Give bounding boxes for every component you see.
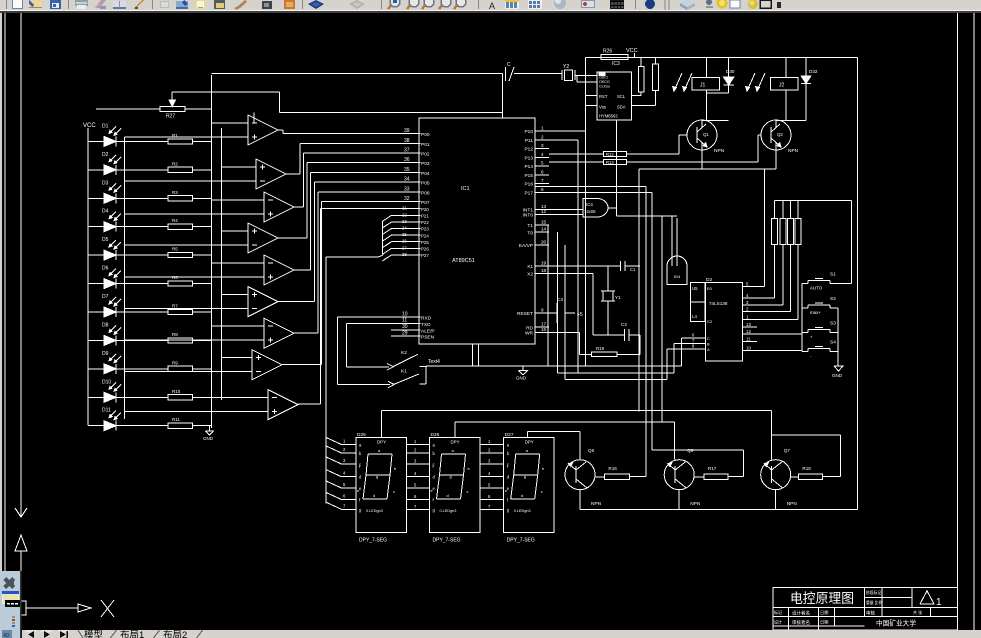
MCU pin P13 stub	[524, 152, 549, 162]
svg-text:33: 33	[404, 186, 410, 192]
svg-text:Q5: Q5	[588, 448, 595, 453]
wire op-amp U9 output to P20	[298, 209, 321, 405]
svg-text:R17: R17	[708, 466, 717, 471]
photodiode D7	[88, 294, 121, 317]
wire D9 to R9	[116, 368, 168, 370]
svg-text:T1: T1	[527, 223, 533, 229]
svg-text:P12: P12	[524, 147, 533, 153]
svg-text:Q6: Q6	[687, 448, 694, 453]
op-amp U4	[248, 223, 278, 253]
resistor R8	[168, 332, 192, 343]
svg-text:SCL: SCL	[617, 94, 626, 99]
svg-text:20: 20	[541, 240, 547, 245]
MCU pin INT1 stub	[523, 204, 549, 214]
svg-text:24: 24	[402, 226, 407, 231]
display common D26 wire to Q6	[455, 422, 675, 460]
svg-text:A: A	[489, 1, 495, 11]
svg-text:OSCI: OSCI	[599, 76, 608, 80]
svg-text:D26: D26	[431, 432, 440, 438]
resistor R7	[168, 304, 192, 315]
right cluster verticals	[548, 140, 578, 380]
svg-text:D2: D2	[706, 277, 712, 283]
svg-text:P13: P13	[524, 156, 533, 162]
svg-text:D9: D9	[102, 351, 109, 357]
svg-text:TXD: TXD	[421, 322, 431, 328]
svg-text:Y1: Y1	[615, 295, 621, 300]
svg-text:DPY_7-SEG: DPY_7-SEG	[433, 538, 461, 544]
svg-text:RESET: RESET	[517, 311, 533, 317]
resistor R26	[601, 49, 628, 60]
switch left rail	[801, 284, 803, 352]
svg-text:0.LEDgn3: 0.LEDgn3	[366, 509, 383, 513]
svg-text:HYM8563: HYM8563	[599, 114, 618, 119]
panel icon layout sheet	[2, 591, 19, 604]
svg-text:C2: C2	[621, 322, 627, 327]
svg-text:+: +	[810, 335, 813, 340]
svg-text:27: 27	[402, 245, 407, 250]
VCC left rail wire	[87, 128, 89, 426]
svg-text:16: 16	[541, 327, 547, 332]
sheet frame outer left border	[4, 13, 6, 571]
svg-text:IC1: IC1	[461, 186, 470, 192]
switch S2	[802, 296, 838, 315]
MCU pin P03 wire	[307, 157, 430, 167]
svg-text:11: 11	[402, 318, 407, 324]
svg-text:R12: R12	[606, 152, 614, 157]
photodiode D1	[88, 123, 121, 146]
svg-text:18: 18	[541, 268, 547, 273]
MCU pin P17 stub	[524, 187, 549, 197]
panel partial icon bottom	[2, 630, 12, 638]
resistor R9	[168, 360, 192, 371]
svg-text:29: 29	[402, 330, 408, 336]
svg-text:S2: S2	[830, 296, 836, 302]
svg-text:ID4: ID4	[674, 274, 681, 279]
decoder output pins	[743, 281, 758, 350]
svg-text:L4: L4	[692, 314, 697, 319]
svg-text:35: 35	[404, 167, 410, 173]
interconnect wires D26 to D27	[480, 439, 504, 509]
svg-text:3: 3	[541, 143, 544, 148]
capacitor C (variable)	[506, 62, 563, 81]
svg-text:0.LEDgn3: 0.LEDgn3	[514, 509, 531, 513]
svg-text:2: 2	[541, 134, 544, 139]
wire D10 to R10	[116, 396, 168, 398]
svg-text:D27: D27	[505, 432, 514, 438]
MCU pin P26 wire with bus tap diagonal	[382, 245, 429, 254]
svg-text:C3: C3	[557, 297, 563, 302]
MCU pin P04 wire	[311, 167, 430, 177]
switch loop wiring K1 K2	[337, 317, 390, 384]
MCU pin RXD wire	[337, 311, 431, 321]
MCU pin P00 wire	[283, 128, 430, 138]
relay J1	[692, 58, 720, 90]
svg-text:NPN: NPN	[690, 501, 701, 507]
reference bus vertical B	[221, 128, 223, 400]
svg-text:R16: R16	[608, 466, 617, 471]
MCU pin P01 wire	[300, 138, 430, 148]
svg-text:NPN: NPN	[591, 501, 602, 507]
P10 wire to RTC rail	[549, 130, 586, 132]
MCU pin RD stub	[526, 322, 549, 332]
svg-text:B: B	[707, 342, 710, 347]
svg-text:DPY_7-SEG: DPY_7-SEG	[507, 538, 535, 544]
svg-text:C2: C2	[707, 319, 713, 324]
wire op-amp U6 output to P05	[278, 182, 314, 302]
svg-text:P21: P21	[421, 214, 429, 219]
op-amp U3	[264, 192, 294, 222]
svg-text:R4: R4	[172, 218, 178, 223]
svg-text:Y2: Y2	[563, 64, 569, 70]
wire op-amp U3 output to P02	[294, 153, 304, 207]
svg-text:P00: P00	[421, 132, 430, 138]
svg-text:OSCO: OSCO	[599, 80, 610, 84]
svg-text:1: 1	[936, 597, 942, 608]
svg-text:C: C	[507, 62, 511, 68]
switch right rail	[837, 308, 839, 365]
op-amp U5	[264, 255, 294, 285]
svg-text:NPN: NPN	[788, 148, 799, 154]
MCU pin INT0 stub	[523, 209, 549, 219]
svg-text:D7: D7	[102, 294, 109, 300]
panel dotted separator	[12, 616, 15, 627]
svg-text:S3: S3	[830, 321, 836, 327]
svg-text:74x08: 74x08	[584, 209, 596, 214]
svg-text:P20: P20	[421, 207, 429, 212]
wire last row to ground	[192, 425, 209, 427]
interconnect wires D25 to D26	[406, 439, 429, 509]
switch K1	[388, 369, 426, 388]
svg-text:X1: X1	[527, 264, 533, 270]
op-amp U8	[252, 350, 282, 380]
svg-text:审核: 审核	[866, 610, 875, 617]
op-amp U2	[256, 159, 286, 189]
crystal Y2	[562, 64, 597, 82]
svg-text:审核者名: 审核者名	[792, 619, 810, 626]
input wires op-amp U8	[125, 358, 253, 372]
svg-text:C1: C1	[630, 267, 636, 272]
svg-text:J1: J1	[700, 83, 706, 89]
panel icon tooltip black	[5, 600, 20, 607]
MCU pin PSEN wire	[391, 330, 435, 340]
wire R13 to Q2 base	[626, 135, 761, 162]
wire S1 to pull-up rail	[830, 283, 852, 285]
flyback diode D30	[706, 58, 735, 93]
svg-text:32: 32	[404, 196, 410, 202]
svg-text:IC4: IC4	[586, 202, 593, 207]
svg-text:R13: R13	[606, 160, 614, 165]
wire R5 to bus	[192, 254, 211, 256]
svg-text:74LS138: 74LS138	[709, 301, 728, 306]
op-amp U6	[248, 287, 278, 317]
svg-text:Text4: Text4	[428, 359, 440, 365]
wire op-amp U5 output to P04	[294, 172, 311, 270]
wire R18 feed	[771, 435, 840, 477]
MCU pin P02 wire	[304, 148, 430, 158]
svg-text:P11: P11	[525, 138, 534, 144]
svg-text:RXD: RXD	[421, 316, 432, 322]
svg-text:D6: D6	[102, 266, 109, 272]
MCU pin RESET stub	[517, 308, 549, 318]
wire R8 to bus	[192, 339, 211, 341]
MCU pin P15 stub	[524, 169, 549, 179]
resistor R2	[168, 161, 192, 172]
transistor Q2	[761, 120, 799, 154]
svg-text:S4: S4	[830, 339, 836, 345]
resistor R16	[595, 466, 629, 480]
svg-text:P16: P16	[524, 182, 533, 188]
wire op-amp U8 output to P07	[282, 202, 322, 365]
svg-text:阶段标记: 阶段标记	[866, 590, 881, 595]
svg-text:RST: RST	[599, 94, 608, 99]
capacitor C1	[549, 261, 640, 272]
reference bus vertical A	[211, 75, 213, 428]
svg-text:D11: D11	[102, 408, 111, 414]
7-segment display D27	[504, 438, 554, 533]
svg-text:4D: 4D	[3, 633, 10, 638]
pull-up resistor RP1 for SCL	[632, 58, 644, 96]
RST wire	[586, 95, 597, 97]
display common D25 wire to Q7	[381, 411, 771, 460]
svg-text:DPY: DPY	[525, 440, 534, 445]
VCC label top right	[626, 48, 638, 58]
input wires op-amp U9	[125, 398, 269, 412]
resistor R19	[579, 333, 640, 357]
svg-text:R11: R11	[172, 417, 180, 422]
MCU pin EA/VP stub	[519, 240, 549, 250]
P11 wire to cluster	[549, 139, 578, 141]
svg-text:GND: GND	[203, 436, 214, 441]
svg-text:P25: P25	[421, 240, 429, 245]
MCU pin P27 wire with bus tap diagonal	[382, 252, 429, 261]
transistor Q5	[565, 448, 602, 507]
svg-text:P14: P14	[524, 164, 533, 170]
decoder output to bus	[743, 169, 765, 286]
wire D11 to R11	[116, 425, 168, 427]
title block row3 cells	[774, 619, 828, 627]
svg-text:D32: D32	[809, 69, 818, 74]
svg-text:R3: R3	[172, 190, 178, 195]
input wires op-amp U7	[125, 326, 265, 340]
svg-text:R10: R10	[172, 389, 181, 394]
wire decoder outputs to switches	[757, 334, 802, 351]
wire op-amp U1 output to P00	[278, 130, 283, 134]
toolbar background	[0, 0, 981, 13]
resistor R1	[168, 133, 192, 144]
photodiode D11	[88, 408, 121, 431]
svg-text:d: d	[521, 493, 523, 498]
MCU pin P22 wire with bus tap diagonal	[382, 219, 429, 228]
svg-text:c: c	[467, 489, 469, 494]
svg-text:NPN: NPN	[787, 501, 798, 507]
ground symbol near MCU	[516, 366, 528, 380]
sheet frame inner right border	[957, 13, 959, 630]
photodiode D10	[88, 379, 121, 402]
svg-text:VCC: VCC	[626, 48, 638, 54]
svg-text:DPY_7-SEG: DPY_7-SEG	[359, 538, 387, 544]
svg-text:K2: K2	[401, 350, 407, 356]
svg-text:26: 26	[402, 239, 407, 244]
svg-text:布局1: 布局1	[120, 629, 144, 638]
svg-text:AT89C51: AT89C51	[452, 258, 475, 264]
svg-text:D8: D8	[102, 322, 109, 328]
wire op-amp U4 output to P03	[278, 163, 307, 238]
svg-text:D5: D5	[102, 237, 109, 243]
resistor R11	[168, 417, 192, 428]
svg-text:重量 比例: 重量 比例	[866, 600, 882, 605]
svg-text:电控原理图: 电控原理图	[790, 591, 854, 606]
svg-text:10: 10	[402, 311, 408, 317]
auxiliary box U5 L4	[690, 283, 705, 322]
wire D3 to R3	[116, 197, 168, 199]
svg-text:1: 1	[541, 126, 544, 131]
wire pull-up rail to S1	[851, 200, 853, 283]
photodiode D2	[88, 152, 121, 175]
svg-text:R27: R27	[166, 114, 175, 120]
pull-up resistor column RN1-RN4	[743, 200, 852, 319]
svg-text:g: g	[450, 474, 452, 479]
wire J2 to Q2 collector	[776, 90, 806, 121]
MCU pin P11 stub	[525, 134, 549, 144]
UCS icon origin bracket	[21, 601, 26, 615]
svg-text:R8: R8	[172, 332, 178, 337]
svg-text:D3: D3	[102, 180, 109, 186]
RTC chip IC3 HYM8563 body	[597, 72, 632, 120]
panel icon crosshair tool	[3, 577, 15, 589]
select line A to decoder	[565, 349, 705, 380]
vertical gate ID4 74x08	[667, 216, 687, 284]
svg-text:R7: R7	[172, 304, 178, 309]
UCS icon X label	[101, 600, 114, 617]
svg-text:7: 7	[541, 178, 544, 183]
svg-text:P06: P06	[421, 190, 430, 196]
photodiode D5	[88, 237, 121, 260]
resistor R18	[791, 466, 823, 480]
wire op-amp U2 output to P01	[286, 143, 300, 174]
svg-text:IC3: IC3	[612, 61, 620, 67]
svg-text:P26: P26	[421, 247, 429, 252]
sheet frame inner left border with arrow end	[15, 13, 27, 517]
svg-text:P04: P04	[421, 171, 430, 177]
svg-text:c: c	[541, 489, 543, 494]
svg-text:R19: R19	[596, 346, 605, 351]
input wires op-amp U3	[125, 200, 265, 214]
input wires op-amp U6	[125, 295, 249, 309]
wire D5 to R5	[116, 254, 168, 256]
svg-text:J2: J2	[779, 83, 785, 89]
svg-text:10: 10	[746, 346, 751, 351]
svg-text:15: 15	[541, 219, 547, 224]
docked panel bottom left	[0, 571, 22, 638]
svg-text:P17: P17	[524, 191, 533, 197]
sheet frame outer right border	[973, 13, 975, 630]
svg-text:P05: P05	[421, 181, 430, 187]
svg-text:PSEN: PSEN	[421, 335, 435, 341]
switch S3	[802, 321, 838, 340]
layout tab bar	[22, 630, 981, 638]
display D25 input pin wires with bus taps	[326, 437, 356, 509]
MCU pin P21 wire with bus tap diagonal	[382, 212, 429, 221]
svg-text:Q1: Q1	[703, 132, 709, 137]
svg-text:P03: P03	[421, 161, 430, 167]
photodiode D9	[88, 351, 121, 374]
sheet size mark A1	[920, 591, 942, 608]
svg-text:4: 4	[541, 152, 544, 157]
svg-text:D25: D25	[357, 432, 366, 438]
resistor R4	[168, 218, 192, 229]
svg-text:DPY: DPY	[377, 440, 386, 445]
svg-text:D30: D30	[726, 69, 735, 74]
title block row2 cells	[774, 607, 930, 630]
svg-text:SDA: SDA	[617, 105, 626, 110]
MCU pin P20 wire from comparator U9	[321, 206, 430, 212]
svg-text:25: 25	[402, 232, 407, 237]
MCU pin P10 stub	[524, 126, 549, 136]
svg-text:INT0: INT0	[523, 213, 534, 219]
capacitor C2	[621, 322, 640, 341]
input wires op-amp U1	[125, 123, 249, 137]
wire IC3 CLKOUT to IC4 output	[615, 120, 617, 216]
transistor Q6	[664, 448, 701, 507]
svg-text:标记: 标记	[774, 609, 782, 615]
svg-text:39: 39	[404, 128, 410, 134]
MCU pin P24 wire with bus tap diagonal	[382, 232, 429, 241]
wire R2 to bus	[192, 169, 211, 171]
MCU pin X2 stub	[527, 268, 549, 278]
photodiode D3	[88, 180, 121, 203]
wire R17 feed	[652, 450, 744, 477]
svg-text:34: 34	[404, 177, 410, 183]
photodiode D8	[88, 322, 121, 345]
wire D2 to R2	[116, 169, 168, 171]
svg-text:12: 12	[746, 329, 751, 334]
svg-text:19: 19	[541, 260, 547, 265]
svg-text:8: 8	[541, 187, 544, 192]
relay J2 coil contacts	[746, 73, 765, 91]
wire D6 to R6	[116, 283, 168, 285]
svg-text:P15: P15	[524, 173, 533, 179]
svg-text:P23: P23	[421, 227, 429, 232]
svg-text:AUTO: AUTO	[810, 286, 823, 291]
switch common vertical	[425, 367, 427, 385]
op-amp U1	[248, 115, 278, 145]
P2 display bus line	[326, 221, 383, 504]
relay J1 coil contacts	[673, 73, 692, 91]
sensor row tap verticals	[124, 137, 126, 419]
capacitor C3 reset	[549, 297, 583, 323]
MCU pin P05 wire	[314, 177, 430, 187]
resistor R12	[549, 151, 626, 157]
MCU pin X1 stub	[527, 260, 549, 270]
svg-text:GND: GND	[516, 376, 527, 381]
wire R6 to bus	[192, 283, 211, 285]
MCU pin P23 wire with bus tap diagonal	[382, 226, 429, 235]
wire D7 to R7	[116, 311, 168, 313]
svg-text:c: c	[393, 489, 395, 494]
MCU pin P25 wire with bus tap diagonal	[382, 239, 429, 248]
wire R1 to bus	[192, 140, 211, 142]
switch K2	[387, 350, 426, 370]
title block frame	[773, 587, 958, 630]
crystal Y1	[601, 266, 621, 335]
decoder select pin numbers	[692, 333, 695, 349]
MCU pin P16 stub	[524, 178, 549, 188]
svg-text:13: 13	[746, 322, 751, 327]
op-amp U7	[264, 318, 294, 348]
toolbar icons (clipped bottom halves)	[6, 0, 781, 11]
wire R10 to bus	[192, 396, 211, 398]
svg-text:P02: P02	[421, 152, 430, 158]
